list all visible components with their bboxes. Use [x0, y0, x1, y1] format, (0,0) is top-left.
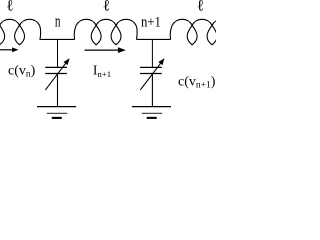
svg-text:c(vn): c(vn) — [8, 63, 36, 79]
svg-text:n+1: n+1 — [141, 15, 161, 31]
svg-text:ℓ: ℓ — [197, 0, 204, 15]
svg-text:ℓ: ℓ — [103, 0, 110, 15]
svg-text:ℓ: ℓ — [6, 0, 13, 15]
svg-text:n: n — [55, 13, 61, 32]
